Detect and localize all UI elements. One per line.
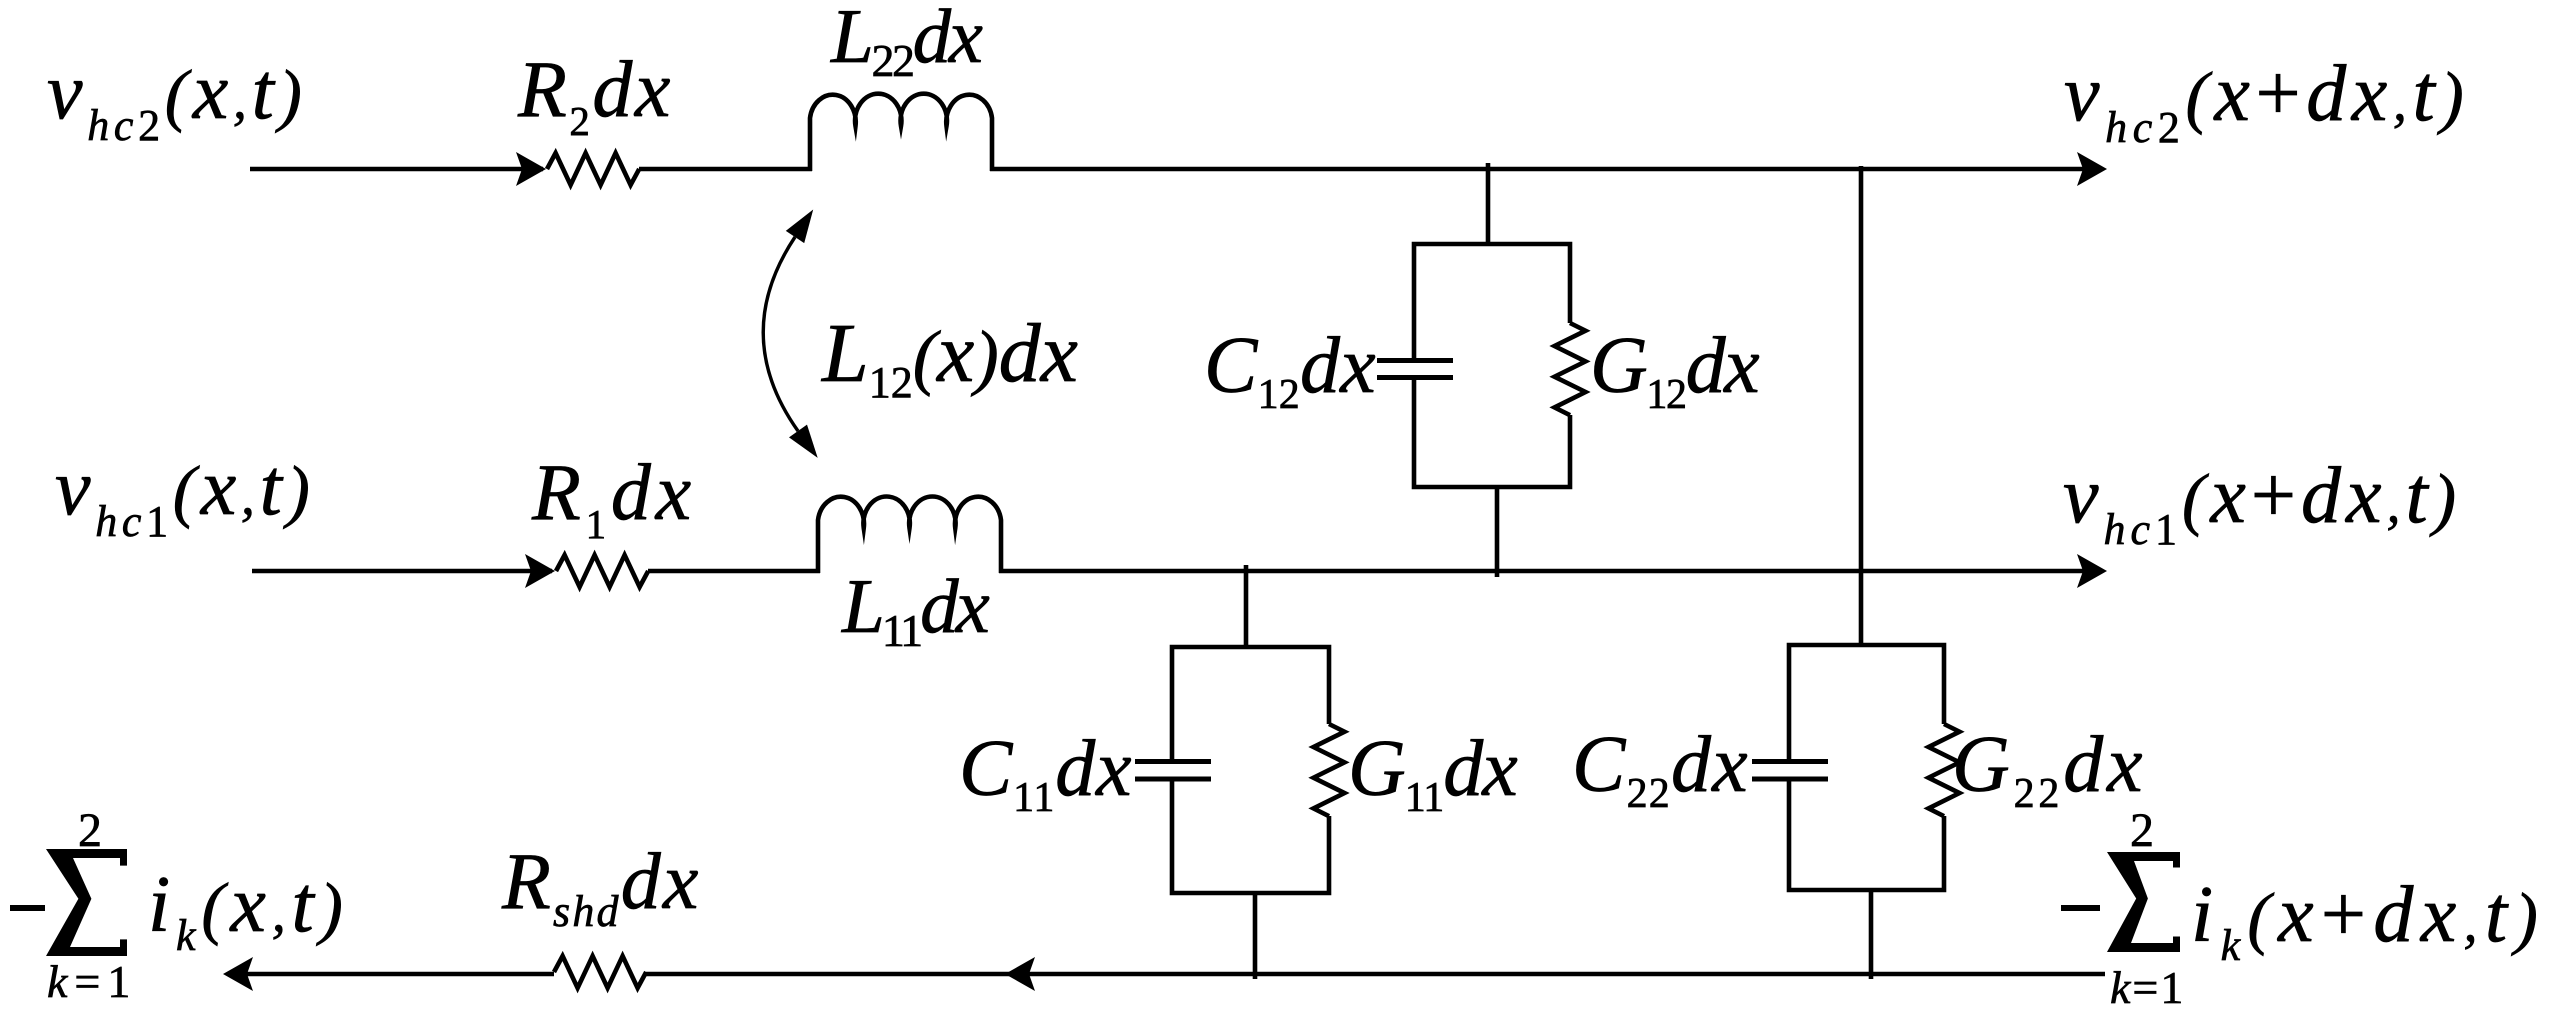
label C12dx bbox=[1204, 322, 1376, 418]
sigma (right sum) bbox=[2107, 852, 2180, 952]
node: C22 bottom stub to shield wire bbox=[1869, 888, 1874, 979]
middle conductor wire v_hc1 bbox=[252, 569, 552, 574]
C12/G12 parallel box frame bbox=[1414, 244, 1570, 358]
arrow on middle wire (current direction hc1) bbox=[525, 554, 555, 588]
arrow on top wire (current direction hc2) bbox=[516, 152, 546, 186]
mutual inductance L12 curved double arrow bbox=[763, 237, 798, 431]
resistor Rshd dx zigzag bbox=[554, 956, 646, 988]
conductance G22dx zigzag bbox=[1929, 724, 1960, 816]
wire between R1 and L11 bbox=[648, 569, 820, 574]
label L22dx bbox=[830, 0, 983, 86]
wire: long vertical from top wire down to C22 (crosses middle wire) bbox=[1859, 166, 1864, 645]
svg-text:R1​dx: R1​dx bbox=[531, 449, 696, 547]
label v_hc1(x,t) bbox=[55, 444, 314, 546]
label i_k(x,t) bbox=[148, 861, 349, 960]
inductor L11dx bbox=[818, 496, 1001, 573]
label R2dx bbox=[517, 46, 673, 144]
top conductor wire v_hc2 bbox=[250, 167, 543, 172]
sigma (left sum) bbox=[46, 849, 127, 956]
label G11dx bbox=[1348, 725, 1517, 821]
node: C12 bottom stub to middle wire bbox=[1495, 485, 1500, 577]
inductor L22dx bbox=[810, 94, 992, 171]
minus sign (right sum) bbox=[2061, 905, 2100, 911]
capacitor C22dx plates bbox=[1752, 759, 1828, 764]
label v_hc1(x+dx,t) bbox=[2063, 452, 2461, 554]
capacitor C12dx plates bbox=[1377, 358, 1453, 363]
conductance G12dx zigzag bbox=[1555, 323, 1586, 415]
label L12(x)dx bbox=[821, 307, 1078, 407]
resistor R2dx zigzag bbox=[547, 153, 639, 185]
middle wire right segment bbox=[999, 569, 2100, 574]
node: C12 top stub from top wire bbox=[1486, 163, 1491, 244]
svg-text:2: 2 bbox=[2130, 804, 2154, 857]
arrowhead left end bottom wire bbox=[223, 957, 253, 991]
subscript k=1 (left sum) bbox=[47, 956, 137, 1007]
label L11dx bbox=[841, 563, 990, 656]
label R1dx bbox=[531, 449, 696, 547]
resistor R1dx zigzag bbox=[556, 555, 648, 587]
arrowhead right end top wire bbox=[2077, 152, 2107, 186]
wire between R2 and L22 bbox=[639, 167, 812, 172]
label C11dx bbox=[959, 725, 1132, 821]
arrow mid bottom wire (return current) bbox=[1005, 957, 1035, 991]
label G12dx bbox=[1590, 322, 1759, 418]
capacitor C11dx plates bbox=[1135, 759, 1211, 764]
label i_k(x+dx,t) bbox=[2191, 871, 2545, 970]
label Rshd dx bbox=[501, 838, 701, 936]
superscript 2 (right sum) bbox=[2130, 804, 2154, 857]
top wire right segment bbox=[990, 167, 2100, 172]
conductance G11dx zigzag bbox=[1314, 724, 1345, 816]
C11/G11 parallel box frame bbox=[1172, 647, 1329, 759]
superscript 2 (left sum) bbox=[78, 804, 102, 857]
label v_hc2(x+dx,t) bbox=[2064, 50, 2469, 152]
arrowhead right end middle wire bbox=[2077, 554, 2107, 588]
label G22dx bbox=[1952, 721, 2146, 817]
label v_hc2(x,t) bbox=[47, 48, 306, 150]
node: C11 top stub from middle wire bbox=[1244, 565, 1249, 647]
C22/G22 parallel box frame bbox=[1789, 645, 1944, 759]
svg-text:k=1: k=1 bbox=[47, 956, 137, 1007]
minus sign (left sum) bbox=[10, 905, 45, 911]
label C22dx bbox=[1572, 721, 1749, 817]
svg-text:R2​dx: R2​dx bbox=[517, 46, 673, 144]
subscript k=1 (right sum) bbox=[2110, 962, 2185, 1013]
svg-text:L12​(x)dx: L12​(x)dx bbox=[821, 307, 1078, 407]
node: C11 bottom stub to shield wire bbox=[1253, 891, 1258, 979]
svg-text:k=1: k=1 bbox=[2110, 962, 2185, 1013]
